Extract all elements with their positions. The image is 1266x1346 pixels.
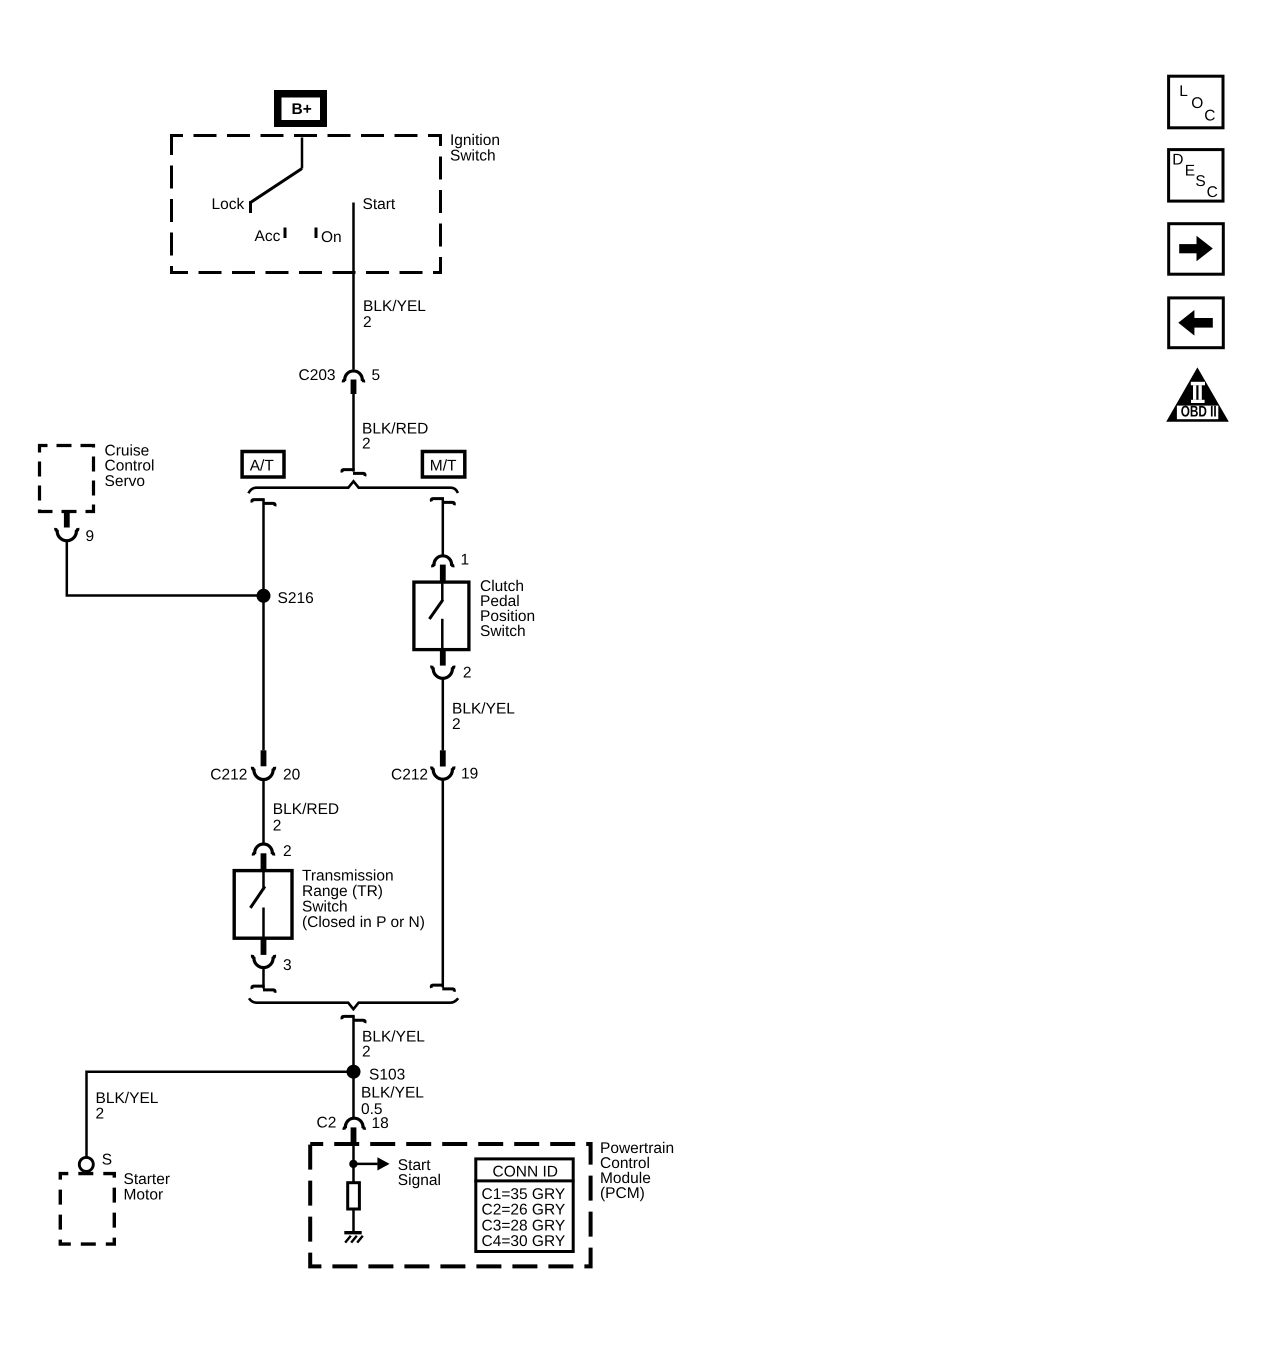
connector C2 male pin (351, 1127, 357, 1143)
clutch pin 2 female arc (432, 666, 454, 679)
svg-text:OBD II: OBD II (1181, 403, 1217, 420)
svg-text:C212: C212 (210, 766, 247, 783)
svg-text:20: 20 (283, 767, 301, 784)
starter terminal S circle (79, 1157, 93, 1171)
wire Start contact down to C203 (352, 203, 355, 370)
ignition switch box (172, 136, 441, 273)
ground symbol (344, 1233, 363, 1243)
splice S216 dot (257, 589, 271, 603)
transmission range switch box (234, 871, 292, 939)
connector C203 male pin (351, 380, 357, 395)
wire M/T branch down to clutch switch (442, 499, 445, 555)
wire TR pin 3 down (262, 967, 265, 988)
connector C212 pin 19 male pin (440, 750, 446, 766)
TR switch pin 3 female arc (252, 955, 274, 968)
wire C203 to split (352, 394, 355, 472)
svg-text:9: 9 (86, 528, 95, 545)
svg-text:2: 2 (283, 843, 292, 860)
connector C203 female arc (343, 371, 363, 382)
svg-text:B+: B+ (292, 101, 312, 118)
svg-text:L: L (1179, 83, 1188, 100)
cruise servo male pin (64, 513, 70, 528)
svg-text:M/T: M/T (430, 457, 457, 474)
TR switch pin 3 male pin (261, 938, 267, 955)
wire cruise servo to S216 (67, 541, 264, 596)
svg-text:S216: S216 (278, 590, 314, 607)
connector C212 pin 19 female arc (432, 767, 454, 780)
svg-text:StarterMotor: StarterMotor (124, 1171, 171, 1204)
TR switch pin 2 female arc (253, 844, 273, 856)
svg-text:On: On (321, 229, 342, 246)
wire C2 into PCM (352, 1143, 355, 1182)
svg-text:Lock: Lock (212, 196, 245, 213)
CONN ID table (474, 1159, 574, 1252)
connector C212 pin 20 female arc (252, 767, 274, 780)
resistor (PCM internal) (348, 1183, 360, 1209)
svg-text:E: E (1185, 162, 1195, 179)
wire-break tilde top of A/T branch (252, 500, 275, 507)
wire-break tilde top of M/T branch (431, 499, 454, 506)
svg-text:C203: C203 (299, 367, 336, 384)
DESC nav box (1169, 150, 1223, 202)
svg-text:S: S (1195, 173, 1205, 190)
cruise control servo box (40, 446, 94, 512)
svg-text:C: C (1204, 108, 1215, 125)
svg-text:O: O (1191, 95, 1203, 112)
power symbol B+ (274, 90, 327, 127)
svg-text:CONN ID: CONN ID (493, 1163, 558, 1180)
LOC nav box (1169, 76, 1223, 128)
next arrow box (1169, 224, 1224, 275)
svg-text:18: 18 (372, 1115, 389, 1132)
clutch pin 2 male pin (440, 650, 446, 666)
wire-break tilde top of merged wire (342, 1016, 365, 1023)
wire-break tilde bottom of A/T branch (252, 986, 275, 993)
switch lever (251, 169, 303, 214)
svg-text:5: 5 (372, 367, 381, 384)
merge brace (249, 998, 458, 1009)
svg-text:IgnitionSwitch: IgnitionSwitch (450, 132, 500, 164)
TR switch pin 2 male pin (261, 853, 267, 869)
svg-text:C1=35 GRYC2=26 GRYC3=28 GRYC4=: C1=35 GRYC2=26 GRYC3=28 GRYC4=30 GRY (482, 1186, 566, 1250)
connector C2 female arc (344, 1118, 364, 1130)
wire C212-19 down to merge (442, 779, 445, 987)
svg-text:19: 19 (461, 765, 478, 782)
wire S103 to starter motor (87, 1072, 354, 1157)
option box M/T (422, 452, 464, 478)
option box A/T (242, 452, 284, 478)
clutch pedal position switch pin 1 female arc (433, 556, 453, 568)
svg-text:C212: C212 (391, 766, 428, 783)
wire-break tilde above split brace (342, 470, 365, 477)
contact tick On (315, 228, 318, 239)
svg-text:C: C (1207, 184, 1218, 201)
wire merge to S103 and C2 (352, 1016, 355, 1117)
svg-text:D: D (1172, 151, 1183, 168)
svg-text:S103: S103 (369, 1066, 405, 1083)
svg-text:A/T: A/T (250, 457, 275, 474)
svg-text:2: 2 (463, 665, 472, 682)
PCM box (310, 1144, 590, 1266)
svg-text:C2: C2 (317, 1115, 337, 1132)
cruise servo pin 9 female arc (56, 528, 78, 541)
OBD II badge (1166, 367, 1229, 421)
wire-break tilde bottom of M/T branch (431, 985, 454, 992)
svg-text:S: S (102, 1152, 112, 1169)
wire C212-20 down to TR pin 2 (262, 779, 265, 843)
split brace A/T M/T (248, 481, 458, 493)
wire resistor to ground (352, 1209, 355, 1231)
previous arrow box (1169, 298, 1224, 348)
contact tick Acc (284, 228, 287, 239)
wire clutch to C212-19 (442, 678, 445, 750)
starter motor box (60, 1174, 114, 1245)
start signal arrow (354, 1157, 390, 1170)
svg-text:Acc: Acc (255, 228, 281, 245)
connector C212 pin 20 male pin (261, 750, 267, 766)
wire A/T branch down to C212 (262, 500, 265, 751)
wire B+ lead (301, 138, 304, 169)
svg-text:1: 1 (461, 551, 470, 568)
splice S103 dot (347, 1065, 361, 1079)
clutch pin 1 male pin (440, 565, 446, 581)
svg-text:Start: Start (363, 196, 396, 213)
svg-text:3: 3 (283, 957, 292, 974)
start signal tap dot (349, 1160, 357, 1168)
clutch pedal position switch box (414, 582, 469, 650)
